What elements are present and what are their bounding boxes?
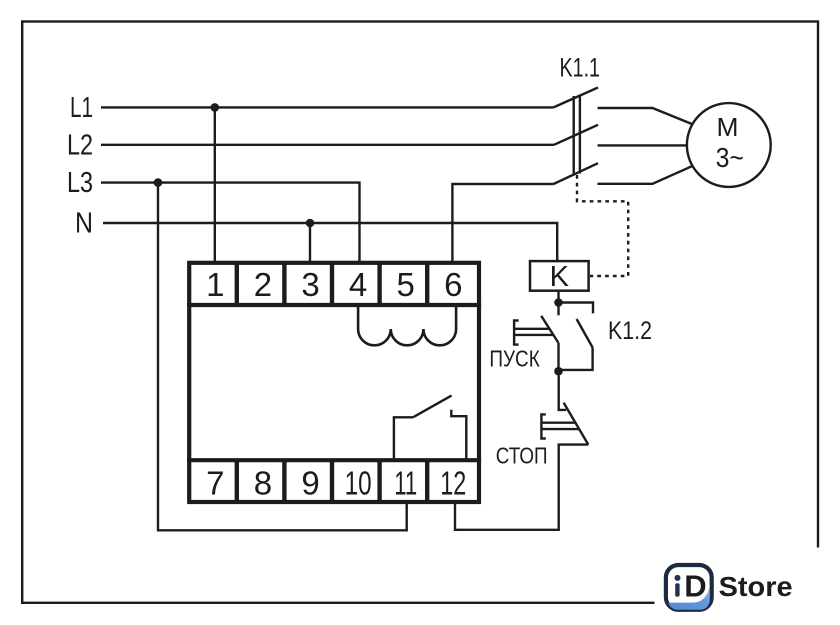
relay contact blade — [413, 396, 452, 418]
svg-text:12: 12 — [440, 465, 466, 502]
pushbutton ПУСК upper stub — [557, 306, 559, 315]
logo background patch — [655, 548, 840, 625]
wire L2 — [101, 144, 554, 146]
contact K1.2 bottom wire — [560, 348, 593, 370]
iD logo blue swoosh — [668, 584, 711, 611]
wire N to coil K — [103, 223, 557, 262]
svg-text:M: M — [717, 112, 739, 142]
wire СТОП to terminal 12 — [455, 445, 588, 530]
wire N to terminal 3 — [309, 223, 311, 263]
svg-text:4: 4 — [349, 266, 367, 303]
terminal strip top separator — [187, 303, 481, 307]
supply coil between terminals 4 and 6 — [358, 307, 456, 345]
svg-text:K1.1: K1.1 — [560, 52, 601, 82]
K1.1 mechanical linkage — [574, 96, 580, 174]
svg-text:2: 2 — [254, 266, 272, 303]
relay contact fixed seat — [451, 410, 466, 459]
wire L1 — [101, 106, 554, 108]
node below ПУСК — [554, 367, 563, 376]
wire L3 to terminal 4 — [101, 183, 360, 263]
wire coil K to node — [557, 291, 559, 300]
contactor K1.1 pole 3 blade — [554, 163, 599, 184]
contactor K1.1 pole 2 blade — [554, 125, 598, 145]
svg-text:L2: L2 — [67, 129, 93, 161]
iD logo text i stem — [675, 583, 679, 596]
wire L3 to terminal 11 — [158, 183, 407, 531]
svg-text:8: 8 — [254, 465, 272, 502]
node L1 junction — [211, 103, 220, 112]
svg-text:D: D — [684, 569, 706, 604]
svg-text:K: K — [550, 261, 570, 293]
relay output contact (terminals 11-12) — [394, 417, 413, 459]
node L3 junction — [154, 178, 163, 187]
wire L1 to terminal 1 — [214, 107, 216, 263]
wire K1.1 pole 1 to motor — [598, 108, 693, 124]
svg-text:ПУСК: ПУСК — [489, 345, 540, 371]
svg-text:10: 10 — [345, 465, 372, 502]
pushbutton СТОП actuator — [541, 414, 579, 438]
pushbutton ПУСК blade — [541, 316, 558, 343]
pushbutton СТОП upper lead — [559, 376, 567, 410]
svg-text:7: 7 — [206, 465, 224, 502]
terminal dividers top row — [237, 263, 427, 305]
contact K1.2 top wire — [560, 303, 593, 314]
svg-text:Store: Store — [719, 571, 793, 602]
terminal dividers bottom row — [237, 460, 427, 502]
contactor coil K box — [530, 261, 589, 291]
relay device body — [189, 263, 479, 502]
node N junction — [306, 219, 315, 228]
svg-text:N: N — [75, 208, 93, 240]
svg-text:5: 5 — [397, 266, 415, 303]
motor M 3~ — [687, 103, 771, 187]
iD Store logo rounded square — [666, 565, 712, 610]
wire terminal 6 to contact K1.1 — [452, 184, 553, 263]
dashed link K1.1 to coil K — [577, 175, 628, 276]
svg-text:6: 6 — [444, 266, 462, 303]
svg-text:9: 9 — [301, 465, 319, 502]
svg-text:СТОП: СТОП — [496, 443, 548, 469]
svg-text:L1: L1 — [70, 92, 93, 124]
svg-text:3: 3 — [301, 266, 319, 303]
contactor K1.1 pole 1 blade — [554, 88, 599, 108]
pushbutton СТОП blade — [564, 403, 589, 445]
node below coil K — [554, 298, 563, 307]
contact K1.2 blade — [577, 319, 593, 348]
svg-text:3~: 3~ — [716, 142, 744, 173]
wire K1.1 pole 3 to motor — [598, 166, 693, 184]
iD logo text i dot — [675, 575, 681, 581]
pushbutton ПУСК lower stub — [557, 343, 559, 368]
pushbutton ПУСК actuator — [514, 321, 553, 345]
wire K1.1 pole 2 to motor — [598, 144, 688, 146]
svg-text:L3: L3 — [67, 167, 93, 199]
svg-text:11: 11 — [394, 465, 417, 502]
terminal strip bottom separator — [187, 458, 481, 462]
svg-text:K1.2: K1.2 — [608, 317, 652, 345]
svg-text:1: 1 — [206, 266, 224, 303]
